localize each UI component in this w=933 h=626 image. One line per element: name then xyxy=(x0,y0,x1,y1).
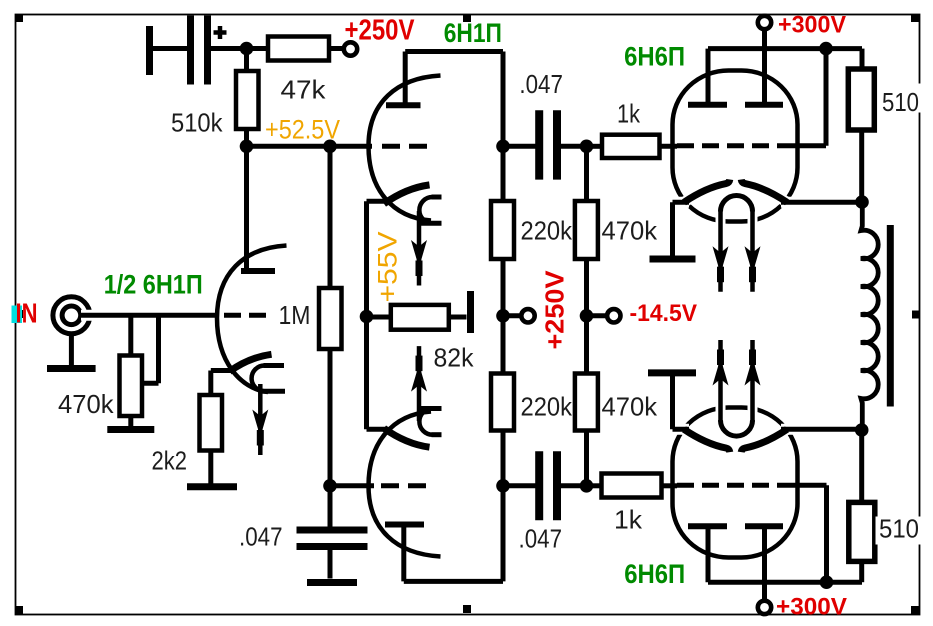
wire plate lead of input triode xyxy=(244,146,249,268)
junction dot node B+ (47k/510k) xyxy=(240,42,254,56)
plate bar of input triode xyxy=(241,268,275,274)
terminal +250V (top-left) xyxy=(344,42,357,55)
input jack connector xyxy=(53,297,90,334)
junction dot (grid node bottom 6N6P) xyxy=(580,479,594,493)
resistor 1k (bottom) xyxy=(602,474,662,498)
resistor 510k xyxy=(244,49,249,72)
wire plate to +300V rail (bottom) xyxy=(706,526,711,582)
cathode stub V3 right (to output node) xyxy=(781,200,858,205)
wire bottom of splitter xyxy=(404,579,503,584)
wire plate V2a to top wire xyxy=(403,52,408,106)
wire xyxy=(208,451,213,484)
svg-text:+250V: +250V xyxy=(540,270,570,350)
wire xyxy=(152,46,187,51)
terminal +300V (top) xyxy=(758,16,771,29)
wire xyxy=(670,376,675,429)
grid (dashed) of V3 xyxy=(677,143,790,148)
wiper wire xyxy=(142,381,159,386)
svg-text:6Н1П: 6Н1П xyxy=(444,18,502,48)
junction dot (1M top) xyxy=(323,140,337,154)
cathode stub V2a xyxy=(367,199,387,204)
ground (470k input) xyxy=(107,426,154,433)
wire xyxy=(69,334,74,367)
ground (V3 cathode) xyxy=(650,256,696,263)
svg-text:470k: 470k xyxy=(602,392,658,422)
junction dot (plate V2b node) xyxy=(496,479,510,493)
heater of V2a xyxy=(432,195,442,200)
svg-text:220k: 220k xyxy=(521,216,573,246)
wire +300V rail bottom xyxy=(708,580,862,585)
wire top of splitter xyxy=(405,49,503,54)
heater of input triode xyxy=(264,363,285,368)
heater of V4 xyxy=(721,420,753,436)
transformer core xyxy=(887,225,894,407)
svg-text:+300V: +300V xyxy=(778,11,847,38)
wire xyxy=(128,315,133,355)
svg-text:+250V: +250V xyxy=(345,15,416,47)
junction dot (grid tie) xyxy=(819,42,833,56)
wire xyxy=(503,144,536,149)
terminal -14.5V xyxy=(607,309,620,322)
plate bars of V4 xyxy=(688,523,727,529)
wire xyxy=(328,146,333,288)
cathode stub V2b xyxy=(367,427,387,432)
svg-text:6Н6П: 6Н6П xyxy=(624,41,685,71)
capacitor C-PSU (polarized filter cap) xyxy=(187,16,194,85)
wire xyxy=(244,129,249,146)
inductor winding (output transformer primary) xyxy=(861,202,878,430)
plate bars of V3 xyxy=(688,102,727,108)
wire xyxy=(211,46,268,51)
svg-text:-14.5V: -14.5V xyxy=(630,300,698,327)
svg-text:+55V: +55V xyxy=(373,232,403,303)
junction dot (1M bottom / V2b grid) xyxy=(323,479,337,493)
terminal +250V (mid) xyxy=(521,309,534,322)
heater of V3 xyxy=(721,196,753,212)
grid (dashed) of input triode xyxy=(224,313,267,318)
resistor 470k (input) xyxy=(120,356,143,417)
wire xyxy=(859,562,864,583)
svg-text:510: 510 xyxy=(882,87,919,117)
cathode of V3 (right) xyxy=(781,197,858,208)
label 510 (bottom) xyxy=(876,517,933,545)
terminal +300V (bottom) xyxy=(758,601,771,614)
plate bar of V2a xyxy=(386,102,421,108)
svg-text:+52.5V: +52.5V xyxy=(265,115,340,145)
heater of V4 (white casing) xyxy=(716,341,726,423)
cathode of V2a xyxy=(384,185,430,204)
wire common cathode column xyxy=(364,201,369,429)
cathode stub V4 right (to output node) xyxy=(781,427,858,432)
tube V2b lower triode envelope xyxy=(369,412,441,557)
wire xyxy=(208,371,213,396)
plate bar of V2b xyxy=(385,522,424,528)
junction dot (grid node top 6N6P) xyxy=(580,140,594,154)
junction dot output node (bottom) xyxy=(855,423,869,437)
ground (V4 cathode) xyxy=(648,369,696,376)
grid (dashed) of V2b xyxy=(381,483,429,488)
wire xyxy=(561,144,587,149)
junction dot (plate V2a node) xyxy=(496,140,510,154)
wire plate V2b to bottom wire xyxy=(401,525,406,582)
resistor 1k (top) xyxy=(602,135,660,158)
capacitor .047 top coupling xyxy=(535,110,543,179)
cathode stub wire xyxy=(211,368,231,373)
svg-text:6Н6П: 6Н6П xyxy=(624,559,685,589)
ground (jack) xyxy=(47,365,96,372)
tube V1 input triode envelope xyxy=(217,246,287,393)
wire +300V terminal lead xyxy=(762,28,767,105)
heater of V2b xyxy=(432,432,442,437)
wire xyxy=(503,313,521,318)
wire xyxy=(328,349,333,486)
capacitor .047 bottom coupling xyxy=(535,451,543,520)
svg-text:470k: 470k xyxy=(602,216,658,246)
svg-text:2k2: 2k2 xyxy=(152,446,188,476)
resistor 510 (top) xyxy=(848,69,874,130)
wire xyxy=(860,49,865,69)
svg-text:1k: 1k xyxy=(614,505,643,535)
resistor 220k (lower) xyxy=(501,316,506,374)
wire jack to grid xyxy=(81,310,102,321)
cathode of input triode xyxy=(230,354,272,371)
wire +300V terminal lead (bottom) xyxy=(762,526,767,601)
svg-text:.047: .047 xyxy=(519,524,563,554)
grid (dashed) of V2a xyxy=(382,144,430,149)
resistor 47k xyxy=(268,37,329,61)
wire xyxy=(587,313,608,318)
svg-text:510k: 510k xyxy=(171,108,223,138)
wire xyxy=(859,430,864,502)
capacitor .047 (grid reference bypass) xyxy=(328,486,333,527)
grid (dashed) of V4 xyxy=(677,483,790,488)
wire xyxy=(859,130,864,202)
cathode of V4 (left) xyxy=(668,424,689,435)
svg-text:1k: 1k xyxy=(617,99,641,129)
svg-text:1М: 1М xyxy=(279,300,311,330)
cathode of V4 (right) xyxy=(781,424,858,435)
svg-text:+300V: +300V xyxy=(776,593,848,620)
svg-text:220k: 220k xyxy=(521,392,573,422)
svg-text:470k: 470k xyxy=(58,389,114,419)
ground (2k2) xyxy=(187,483,237,490)
heater of V3 (white casing) xyxy=(716,209,726,291)
junction dot output node (top) xyxy=(855,195,869,209)
svg-text:1/2 6Н1П: 1/2 6Н1П xyxy=(104,270,203,300)
wire xyxy=(561,483,587,488)
resistor 2k2 xyxy=(200,395,223,451)
svg-text:47k: 47k xyxy=(281,75,327,105)
ground (82k, rotated bar) xyxy=(467,291,474,333)
tube V3 6N6P envelope (top) xyxy=(673,71,798,222)
junction dot cathode node xyxy=(360,310,374,324)
wire xyxy=(503,483,536,488)
label 510 (top) xyxy=(878,84,933,113)
resistor 510 (bottom) xyxy=(849,502,875,561)
grid tie wire V4 xyxy=(790,483,827,488)
wire plate to +300V rail xyxy=(706,49,711,105)
wire +52.5V node to 6N1P grid xyxy=(247,144,373,149)
svg-text:.047: .047 xyxy=(519,69,563,99)
ground (rotated bar, PSU cap negative) xyxy=(146,26,153,75)
cathode of V3 (left) xyxy=(668,197,689,208)
svg-text:82k: 82k xyxy=(434,343,475,373)
ground (.047 bypass) xyxy=(307,579,357,586)
junction dot node -14.5V xyxy=(580,309,594,323)
wire 1M node to V2b grid xyxy=(330,483,374,488)
resistor 82k xyxy=(367,315,391,320)
grid tie wire V3 xyxy=(790,143,826,148)
resistor 470k (upper bias feed) xyxy=(584,146,589,201)
junction dot (grid tie bottom) xyxy=(820,575,834,589)
wire xyxy=(329,46,344,51)
tube V4 6N6P envelope (bottom) xyxy=(673,408,798,558)
resistor 1M xyxy=(319,288,342,349)
wire xyxy=(670,202,675,255)
cathode of V2b xyxy=(384,428,430,447)
resistor 220k (upper) xyxy=(501,146,506,201)
tube V2a upper triode envelope xyxy=(369,76,441,221)
svg-text:510: 510 xyxy=(879,514,919,544)
svg-text:.047: .047 xyxy=(239,522,283,552)
junction dot node +250V mid xyxy=(496,309,510,323)
junction dot node +52.5V xyxy=(240,140,254,154)
label IN (cyan artifact) xyxy=(12,306,23,324)
resistor 470k (lower bias feed) xyxy=(584,316,589,374)
wire +300V rail top xyxy=(708,46,862,51)
wire xyxy=(128,416,133,427)
svg-text:IN: IN xyxy=(16,298,38,329)
